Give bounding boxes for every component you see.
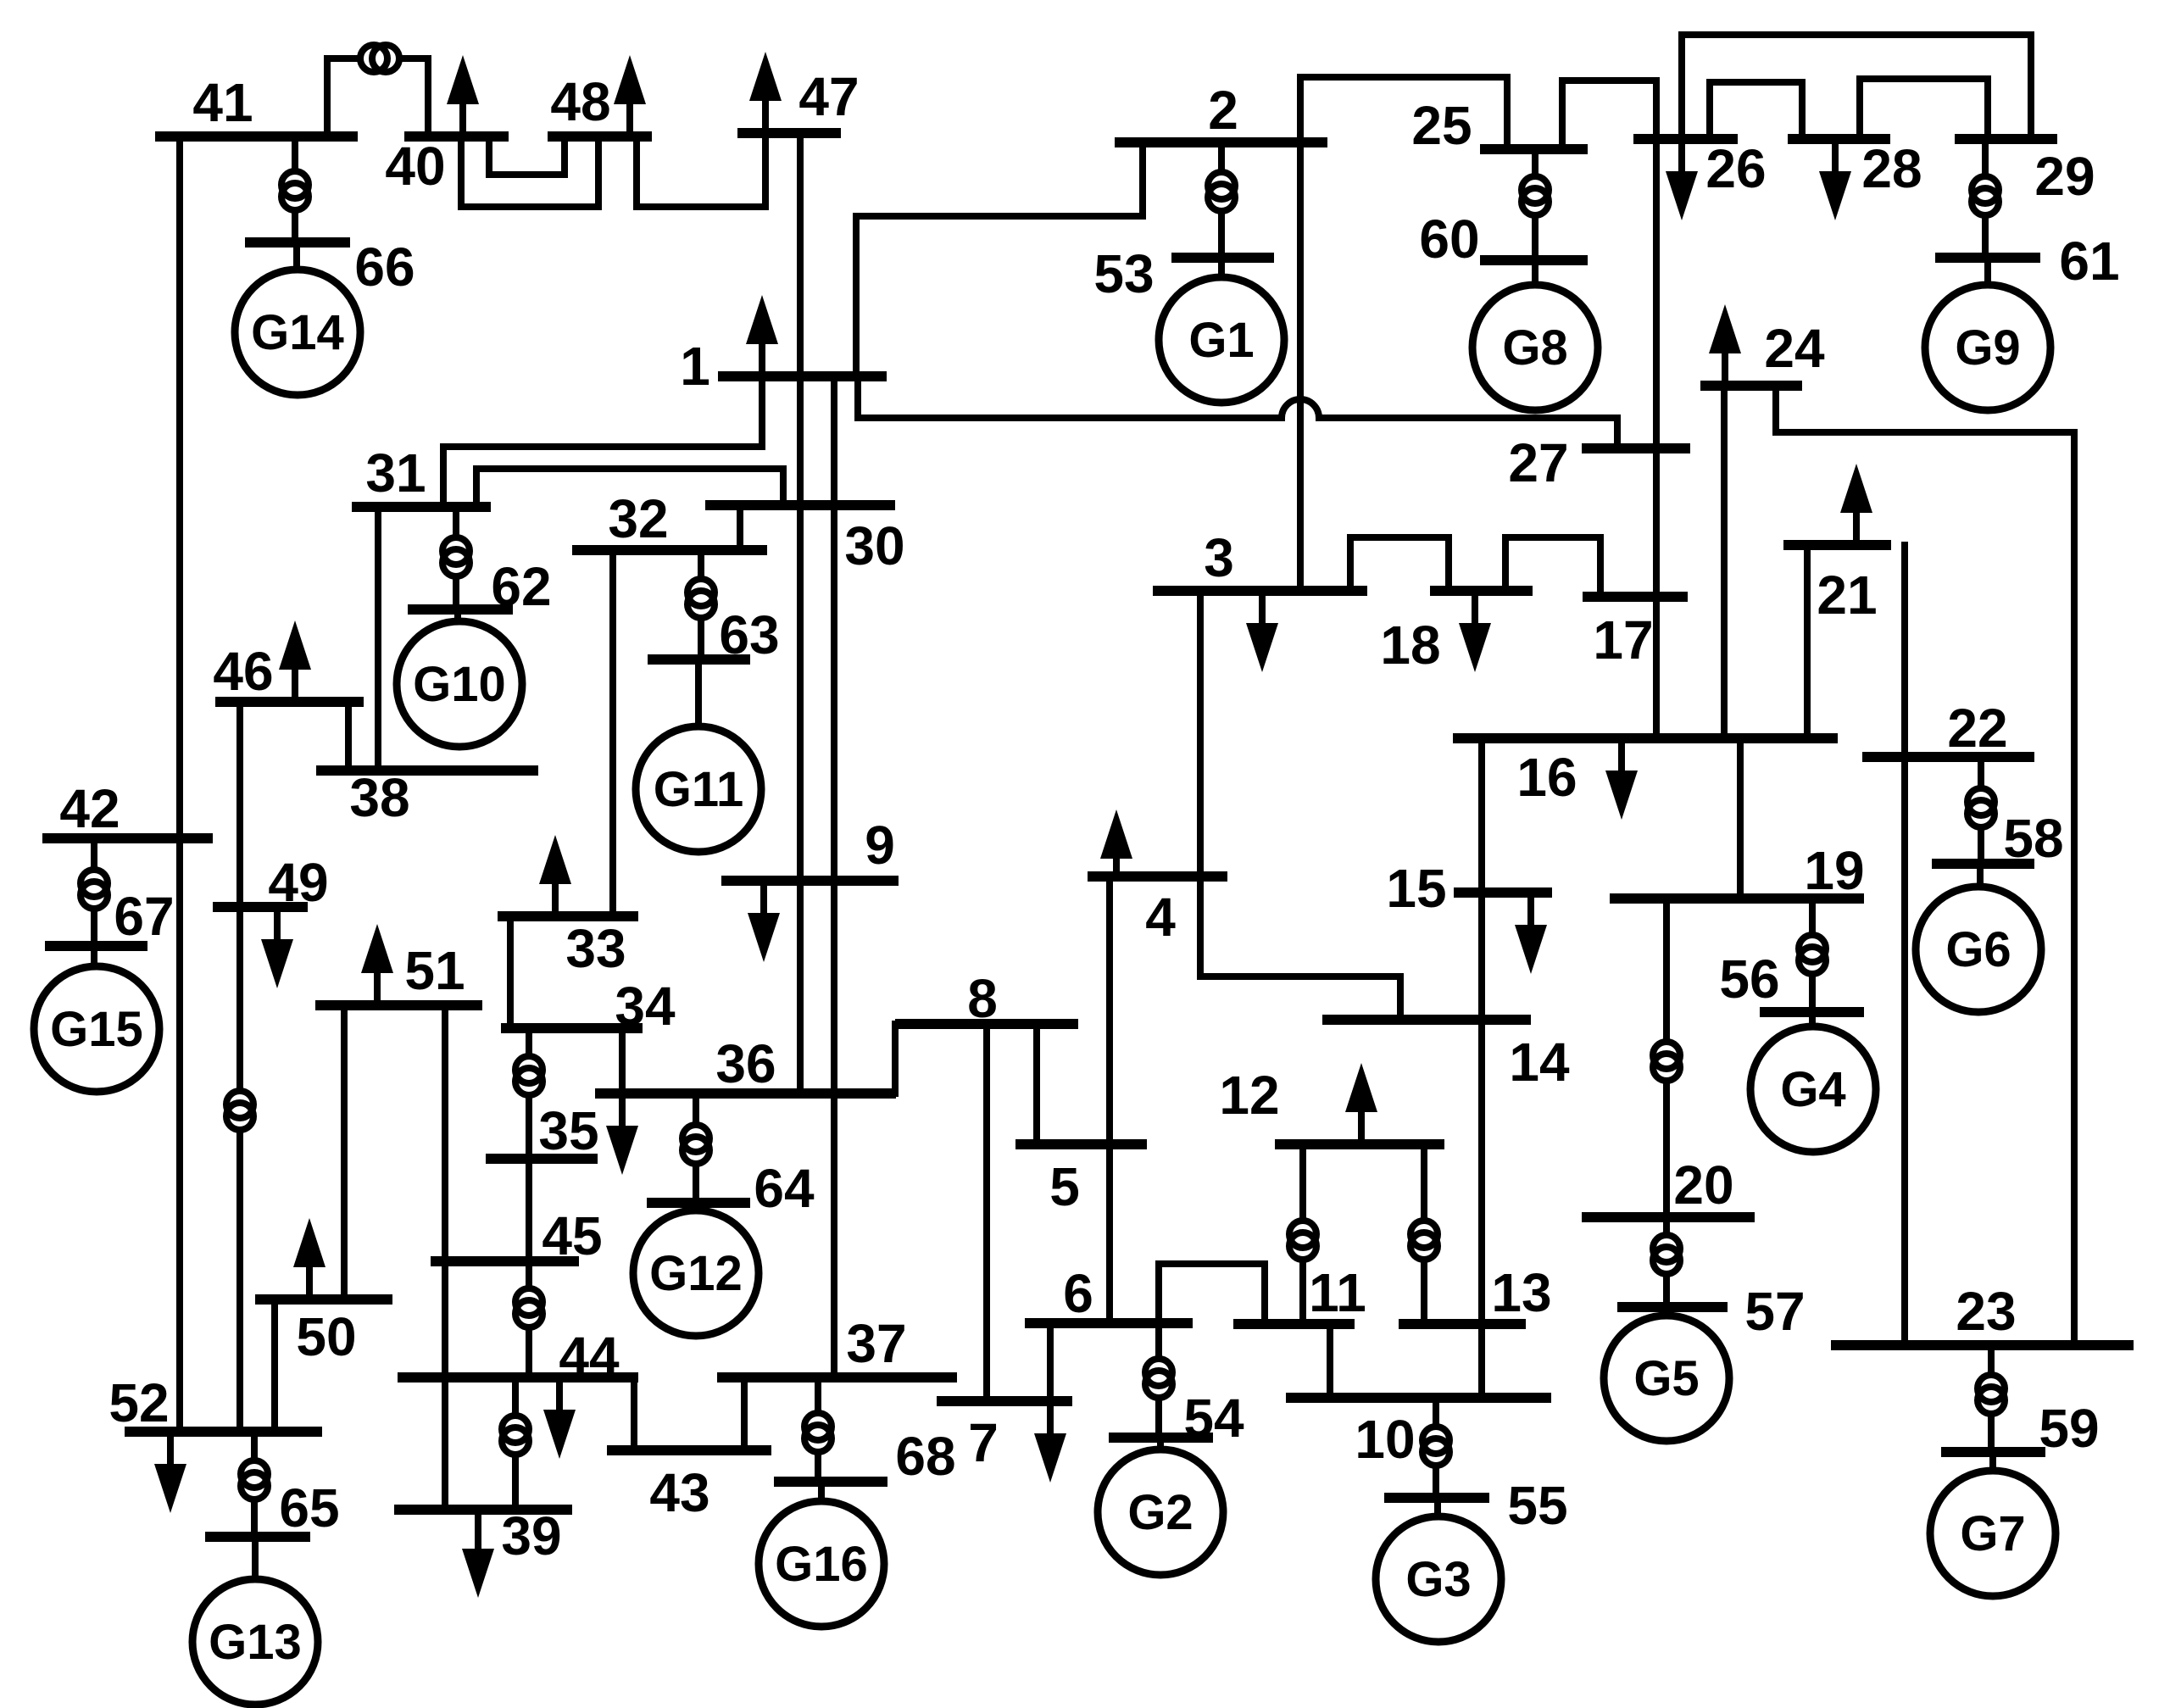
load arrow bus 50 (293, 1218, 325, 1299)
svg-text:G12: G12 (649, 1246, 743, 1301)
svg-text:7: 7 (968, 1412, 999, 1473)
load arrow bus 36 (606, 1093, 638, 1175)
wire 6-54 transformer link (1155, 1323, 1162, 1438)
node 47 (bus 47) (737, 66, 860, 133)
svg-text:G3: G3 (1405, 1552, 1471, 1607)
svg-text:38: 38 (349, 767, 409, 828)
transformer T 52-65 (241, 1460, 268, 1499)
svg-text:68: 68 (895, 1426, 955, 1487)
wire 24 to 23 line (1776, 386, 2074, 1345)
wire 68 to G16 stub (818, 1482, 825, 1501)
node 68 (bus 68) (774, 1426, 956, 1487)
svg-text:64: 64 (754, 1158, 815, 1219)
transformer T 37-68 (804, 1413, 832, 1452)
svg-text:19: 19 (1804, 840, 1864, 901)
transformer T 19-56 (1799, 935, 1826, 974)
transformer T 31-62 (442, 537, 470, 576)
svg-text:50: 50 (296, 1306, 356, 1367)
svg-text:G4: G4 (1780, 1062, 1845, 1117)
wire 27 link down (1614, 418, 1621, 448)
node 27 (bus 27) (1508, 432, 1690, 493)
load arrow bus 1 (746, 295, 778, 376)
wire 33 to 34 stub (507, 916, 514, 1028)
svg-text:33: 33 (565, 918, 626, 979)
wire 6 to 11 bracket (1159, 1264, 1265, 1324)
generator G12 (633, 1210, 759, 1336)
svg-text:59: 59 (2039, 1398, 2099, 1459)
svg-text:10: 10 (1355, 1409, 1415, 1470)
wire 2-53 transformer link (1218, 142, 1225, 258)
transformer T 10-55 (1422, 1427, 1449, 1466)
load arrow bus 46 (279, 620, 311, 702)
wire 27-17-16 already drawn (1654, 593, 1661, 600)
wire 21 to 22-23 line (1901, 545, 1908, 1345)
svg-text:25: 25 (1411, 95, 1472, 156)
generator G2 (1098, 1449, 1223, 1575)
svg-text:30: 30 (844, 515, 904, 576)
node 14 (bus 14) (1322, 1020, 1570, 1093)
node 53 (bus 53) (1093, 243, 1274, 304)
svg-text:37: 37 (846, 1313, 906, 1374)
transformer T 32-63 (687, 579, 715, 618)
load arrow bus 18 (1459, 591, 1491, 672)
wire 29-61 transformer link (1982, 139, 1989, 258)
load arrow bus 47 (749, 52, 782, 133)
transformer T 19-20 (1653, 1042, 1680, 1081)
wire 62 to G10 stub (454, 609, 461, 621)
svg-text:66: 66 (354, 236, 415, 298)
svg-text:23: 23 (1956, 1281, 2016, 1342)
transformer T 23-59 (1978, 1375, 2005, 1414)
wire 12-13 transformer link (1421, 1144, 1427, 1324)
wire 36-64 transformer link (693, 1093, 699, 1203)
node 42 (bus 42) (42, 778, 213, 839)
node 1 (bus 1) (680, 336, 887, 397)
node 11 (bus 11) (1233, 1262, 1366, 1324)
svg-text:G16: G16 (775, 1537, 868, 1592)
node 17 (bus 17) (1583, 597, 1688, 670)
transformer T 25-60 (1522, 176, 1549, 215)
svg-text:12: 12 (1219, 1065, 1279, 1126)
wire 20-57 transformer link (1663, 1217, 1670, 1307)
node 40 (bus 40) (385, 136, 509, 197)
svg-text:4: 4 (1145, 887, 1176, 948)
wire 28 to 29 bracket (1860, 79, 1988, 139)
svg-text:44: 44 (559, 1326, 620, 1387)
wire 63 to G11 stub (695, 659, 702, 726)
wire 44 to 43 stub (631, 1377, 637, 1450)
svg-text:52: 52 (108, 1372, 169, 1433)
node 44 (bus 44) (398, 1326, 638, 1387)
wire 19-56 transformer link (1809, 899, 1816, 1012)
wire 47-1-36 long line (797, 133, 804, 1093)
node 10 (bus 10) (1286, 1398, 1551, 1470)
transformer T 36-64 (682, 1125, 709, 1164)
node 35 (bus 35) (486, 1100, 599, 1161)
svg-text:G11: G11 (654, 762, 743, 817)
load arrow bus 7 (1034, 1401, 1066, 1483)
svg-text:61: 61 (2059, 231, 2119, 292)
node 16 (bus 16) (1453, 738, 1838, 808)
svg-text:18: 18 (1380, 615, 1440, 676)
node 36 (bus 36) (595, 1033, 896, 1094)
svg-text:11: 11 (1309, 1262, 1366, 1323)
svg-text:G1: G1 (1188, 313, 1254, 368)
svg-text:56: 56 (1719, 949, 1779, 1010)
wire 57 to G5 stub (1663, 1307, 1670, 1316)
node 37 (bus 37) (717, 1313, 957, 1377)
node 31 (bus 31) (352, 442, 491, 507)
load arrow bus 15 (1515, 893, 1547, 974)
node 65 (bus 65) (205, 1477, 340, 1538)
load arrow bus 48 (614, 55, 646, 136)
svg-text:24: 24 (1764, 318, 1825, 379)
wire 56 to G4 stub (1809, 1012, 1816, 1026)
svg-text:G8: G8 (1502, 320, 1567, 376)
svg-text:47: 47 (798, 66, 859, 127)
node 57 (bus 57) (1617, 1281, 1806, 1342)
node 19 (bus 19) (1610, 840, 1865, 901)
wire 2-3-25 line (1297, 77, 1304, 591)
svg-text:15: 15 (1386, 858, 1446, 919)
node 62 (bus 62) (408, 556, 552, 617)
generator G1 (1159, 277, 1284, 403)
load arrow bus 26 (1666, 139, 1698, 220)
wire 40-48 outer U (461, 136, 598, 207)
svg-text:54: 54 (1183, 1388, 1244, 1449)
node 60 (bus 60) (1419, 209, 1588, 270)
load arrow bus 3 (1246, 591, 1278, 672)
node 41 (bus 41) (155, 72, 358, 136)
node 48 (bus 48) (548, 71, 652, 136)
node 12 (bus 12) (1219, 1065, 1444, 1144)
load arrow bus 28 (1819, 139, 1851, 220)
svg-text:51: 51 (404, 940, 465, 1001)
node 52 (bus 52) (108, 1372, 322, 1433)
wire 4-5-6 line (1106, 876, 1113, 1323)
wire 31 to 30 link (476, 469, 783, 507)
node 45 (bus 45) (431, 1205, 603, 1266)
transformer T 2-53 (1208, 172, 1235, 211)
svg-text:45: 45 (542, 1205, 602, 1266)
svg-text:21: 21 (1817, 565, 1877, 626)
wire 26 to 28 bracket (1710, 82, 1802, 139)
generator G4 (1750, 1026, 1876, 1152)
load arrow bus 33 (539, 835, 571, 916)
wire 30 to 32 stub (737, 505, 743, 550)
wire 46-49-52 line (236, 702, 243, 1432)
generator G7 (1930, 1471, 2056, 1596)
node 56 (bus 56) (1719, 949, 1864, 1012)
svg-text:22: 22 (1947, 698, 2007, 759)
svg-text:3: 3 (1204, 527, 1234, 588)
svg-text:39: 39 (501, 1505, 561, 1566)
svg-text:9: 9 (865, 815, 895, 876)
svg-text:26: 26 (1705, 138, 1766, 199)
svg-text:32: 32 (608, 488, 668, 549)
wire 32 to 33 line (609, 550, 616, 916)
node 51 (bus 51) (315, 940, 482, 1005)
wire 1-30-9-36-37 long line (831, 376, 837, 1377)
node 7 (bus 7) (937, 1401, 1072, 1473)
wire 61 to G9 stub (1984, 258, 1991, 285)
node 18 (bus 18) (1380, 591, 1533, 676)
load arrow bus 40 (447, 55, 479, 136)
load arrow bus 16 (1605, 738, 1638, 820)
wire 40-48 inner U (489, 136, 565, 175)
svg-text:G5: G5 (1633, 1351, 1699, 1406)
wire 34 to 36 line (619, 1028, 626, 1093)
wire 6 to 7 line (1047, 1323, 1054, 1401)
svg-text:43: 43 (649, 1462, 709, 1523)
wire 25-60 transformer link (1532, 149, 1538, 260)
generator G9 (1925, 285, 2050, 410)
svg-text:46: 46 (213, 641, 273, 702)
load arrow bus 44 (543, 1377, 576, 1459)
node 13 (bus 13) (1399, 1262, 1552, 1324)
svg-text:13: 13 (1491, 1262, 1551, 1323)
load arrow bus 51 (361, 924, 393, 1005)
load arrow bus 49 (261, 907, 293, 988)
node 22 (bus 22) (1862, 698, 2034, 759)
node 64 (bus 64) (647, 1158, 815, 1219)
generator G13 (192, 1579, 318, 1705)
node 55 (bus 55) (1384, 1475, 1568, 1536)
wire 42-67 transformer link (91, 838, 97, 946)
generator G8 (1472, 285, 1598, 410)
wire 58 to G6 stub (1977, 864, 1984, 887)
wire 18 to 17 bracket (1505, 537, 1600, 597)
wire 26 to 29 outer bracket (1682, 35, 2031, 139)
node 4 (bus 4) (1088, 876, 1227, 948)
svg-text:G9: G9 (1955, 320, 2020, 376)
svg-text:62: 62 (491, 556, 551, 617)
wire 31 to 38 line (375, 507, 381, 771)
wire 12-11 transformer link (1299, 1144, 1306, 1324)
svg-text:65: 65 (279, 1477, 339, 1538)
node 46 (bus 46) (213, 641, 364, 702)
svg-text:48: 48 (550, 71, 610, 132)
generator G3 (1376, 1516, 1501, 1642)
load arrow bus 12 (1345, 1063, 1377, 1144)
wire 54 to G2 stub (1157, 1438, 1164, 1449)
wire 16-15-14-13-10 chain (1478, 738, 1485, 1398)
wire 22-58 transformer link (1978, 757, 1984, 864)
svg-text:55: 55 (1507, 1475, 1567, 1536)
transformer T 20-57 (1653, 1235, 1680, 1274)
load arrow bus 52 (154, 1432, 186, 1513)
wire 43 to 37 stub (741, 1377, 748, 1450)
load arrow bus 24 (1709, 304, 1741, 386)
wire 44-39 transformer link (512, 1377, 519, 1510)
node 39 (bus 39) (394, 1505, 572, 1566)
wire 48-47 U (637, 133, 765, 207)
transformer T 45-44 (515, 1288, 542, 1327)
wire 8 to 7 line (983, 1024, 990, 1401)
wire 41 up to transformer (327, 58, 357, 136)
wire 1 to 27 elbow (854, 376, 861, 418)
node 5 (bus 5) (1015, 1144, 1147, 1217)
svg-text:1: 1 (680, 336, 710, 397)
svg-text:67: 67 (114, 886, 174, 947)
wire 50 to 52 line (271, 1299, 278, 1432)
wire 55 to G3 stub (1434, 1498, 1441, 1516)
transformer T 41-66 (281, 171, 309, 210)
wire 1 to 27 line with hop (858, 399, 1617, 418)
svg-text:16: 16 (1516, 747, 1577, 808)
node 9 (bus 9) (721, 815, 899, 881)
svg-text:5: 5 (1049, 1156, 1080, 1217)
node 43 (bus 43) (607, 1450, 771, 1523)
node 32 (bus 32) (572, 488, 767, 550)
wire 19-20 transformer chain (1663, 899, 1670, 1217)
load arrow bus 39 (462, 1510, 494, 1598)
node 24 (bus 24) (1700, 318, 1825, 386)
transformer T 34-35 (515, 1056, 542, 1095)
wire 64 to G12 stub (693, 1203, 699, 1210)
transformer T 22-58 (1967, 788, 1995, 827)
node 66 (bus 66) (245, 236, 415, 298)
node 8 (bus 8) (895, 968, 1078, 1029)
wire 46 to 38 line (345, 702, 352, 771)
svg-text:6: 6 (1063, 1263, 1093, 1324)
node 25 (bus 25) (1411, 95, 1588, 156)
node 6 (bus 6) (1025, 1263, 1193, 1324)
svg-text:2: 2 (1208, 80, 1238, 141)
generator G15 (34, 966, 159, 1092)
svg-text:G13: G13 (209, 1615, 302, 1670)
svg-text:G7: G7 (1960, 1506, 2025, 1561)
svg-text:58: 58 (2003, 808, 2063, 869)
transformer T 12-11 (1289, 1221, 1316, 1260)
transformer T 49-52 (226, 1091, 253, 1130)
node 63 (bus 63) (648, 604, 780, 665)
wire 16 to 21 line (1804, 545, 1811, 738)
svg-text:28: 28 (1861, 138, 1922, 199)
node 21 (bus 21) (1783, 545, 1891, 626)
svg-text:G14: G14 (251, 305, 344, 360)
svg-text:G2: G2 (1127, 1485, 1193, 1540)
svg-text:20: 20 (1673, 1154, 1733, 1216)
wire 23-59 transformer link (1988, 1345, 1995, 1452)
load arrow bus 9 (748, 881, 780, 962)
wire 59 to G7 stub (1989, 1452, 1996, 1471)
wire 51 to 50 stub (341, 1005, 348, 1299)
node 33 (bus 33) (498, 916, 638, 979)
svg-text:42: 42 (59, 778, 120, 839)
node 67 (bus 67) (45, 886, 175, 947)
transformer T 42-67 (81, 870, 108, 909)
node 34 (bus 34) (501, 976, 676, 1037)
svg-text:34: 34 (615, 976, 676, 1037)
wire 60 to G8 stub (1532, 260, 1538, 285)
node 3 (bus 3) (1153, 527, 1367, 591)
wire 25-26-27-17-16 line (1562, 81, 1656, 738)
wire 37-68 transformer link (815, 1377, 821, 1482)
svg-text:G6: G6 (1945, 922, 2011, 977)
generator G5 (1604, 1316, 1729, 1441)
svg-text:14: 14 (1509, 1032, 1570, 1093)
svg-text:63: 63 (719, 604, 779, 665)
svg-text:17: 17 (1593, 609, 1653, 670)
node 54 (bus 54) (1109, 1388, 1244, 1449)
node 26 (bus 26) (1633, 138, 1767, 199)
wire 2 to 25 top link (1300, 77, 1507, 149)
node 49 (bus 49) (213, 852, 329, 913)
svg-text:36: 36 (715, 1033, 776, 1094)
wire 51 to 45-44-39 line (442, 1005, 448, 1510)
node 58 (bus 58) (1932, 808, 2064, 869)
generator G10 (397, 621, 522, 747)
generator G16 (759, 1501, 884, 1627)
wire 34-35-45-44 chain (526, 1028, 532, 1377)
load arrow bus 4 (1100, 809, 1132, 876)
wire 10-55 transformer link (1433, 1398, 1439, 1498)
wire 53 to G1 stub (1218, 258, 1225, 277)
wire 65 to G13 stub (252, 1537, 259, 1579)
generator G14 (235, 270, 360, 395)
svg-text:60: 60 (1419, 209, 1479, 270)
transformer T 44-39 (502, 1416, 529, 1455)
load arrow bus 21 (1840, 464, 1872, 545)
svg-text:8: 8 (967, 968, 998, 1029)
generator G6 (1916, 887, 2041, 1012)
wire 52-65 transformer link (251, 1432, 258, 1537)
wire 36 to 8 elbow (892, 1024, 899, 1093)
node 20 (bus 20) (1582, 1154, 1755, 1217)
wire 1 to 31 link (443, 376, 762, 507)
wire 31-62 transformer link (453, 507, 459, 609)
svg-text:G10: G10 (413, 657, 506, 712)
wire 67 to G15 stub (91, 946, 97, 966)
node 50 (bus 50) (255, 1299, 392, 1367)
node 30 (bus 30) (705, 505, 905, 576)
wire 2 to 1 link (856, 142, 1143, 376)
wire transformer to 40 (403, 58, 428, 136)
node 38 (bus 38) (316, 767, 538, 828)
node 61 (bus 61) (1935, 231, 2120, 292)
wire 24 to 16 line (1721, 386, 1728, 738)
wire 3 to 18 bracket (1350, 537, 1449, 591)
node 2 (bus 2) (1115, 80, 1327, 142)
wire 16 to 19 line (1737, 738, 1744, 899)
svg-text:G15: G15 (50, 1002, 143, 1057)
svg-text:35: 35 (538, 1100, 598, 1161)
node 15 (bus 15) (1386, 858, 1552, 919)
svg-text:29: 29 (2034, 146, 2095, 207)
node 29 (bus 29) (1955, 139, 2095, 207)
svg-text:27: 27 (1508, 432, 1568, 493)
generator G11 (636, 726, 761, 852)
svg-text:53: 53 (1093, 243, 1154, 304)
transformer T 12-13 (1410, 1221, 1438, 1260)
node 59 (bus 59) (1941, 1398, 2100, 1459)
wire 41-66 transformer link (292, 136, 298, 242)
wire 11 to 10 stub (1327, 1324, 1333, 1398)
node 28 (bus 28) (1788, 138, 1922, 199)
svg-text:31: 31 (365, 442, 426, 503)
transformer T 29-61 (1972, 176, 1999, 215)
node 23 (bus 23) (1831, 1281, 2134, 1345)
wire 8 to 5 line (1033, 1024, 1040, 1144)
wire 32-63 transformer link (698, 550, 704, 659)
svg-text:41: 41 (192, 72, 253, 133)
wire 66 to G14 stub (293, 242, 300, 270)
wire 3 to 4 and 14 line (1200, 591, 1400, 1020)
wire 41 to 52 long line (176, 136, 183, 1432)
svg-text:57: 57 (1744, 1281, 1805, 1342)
transformer T 6-54 (1145, 1359, 1172, 1398)
